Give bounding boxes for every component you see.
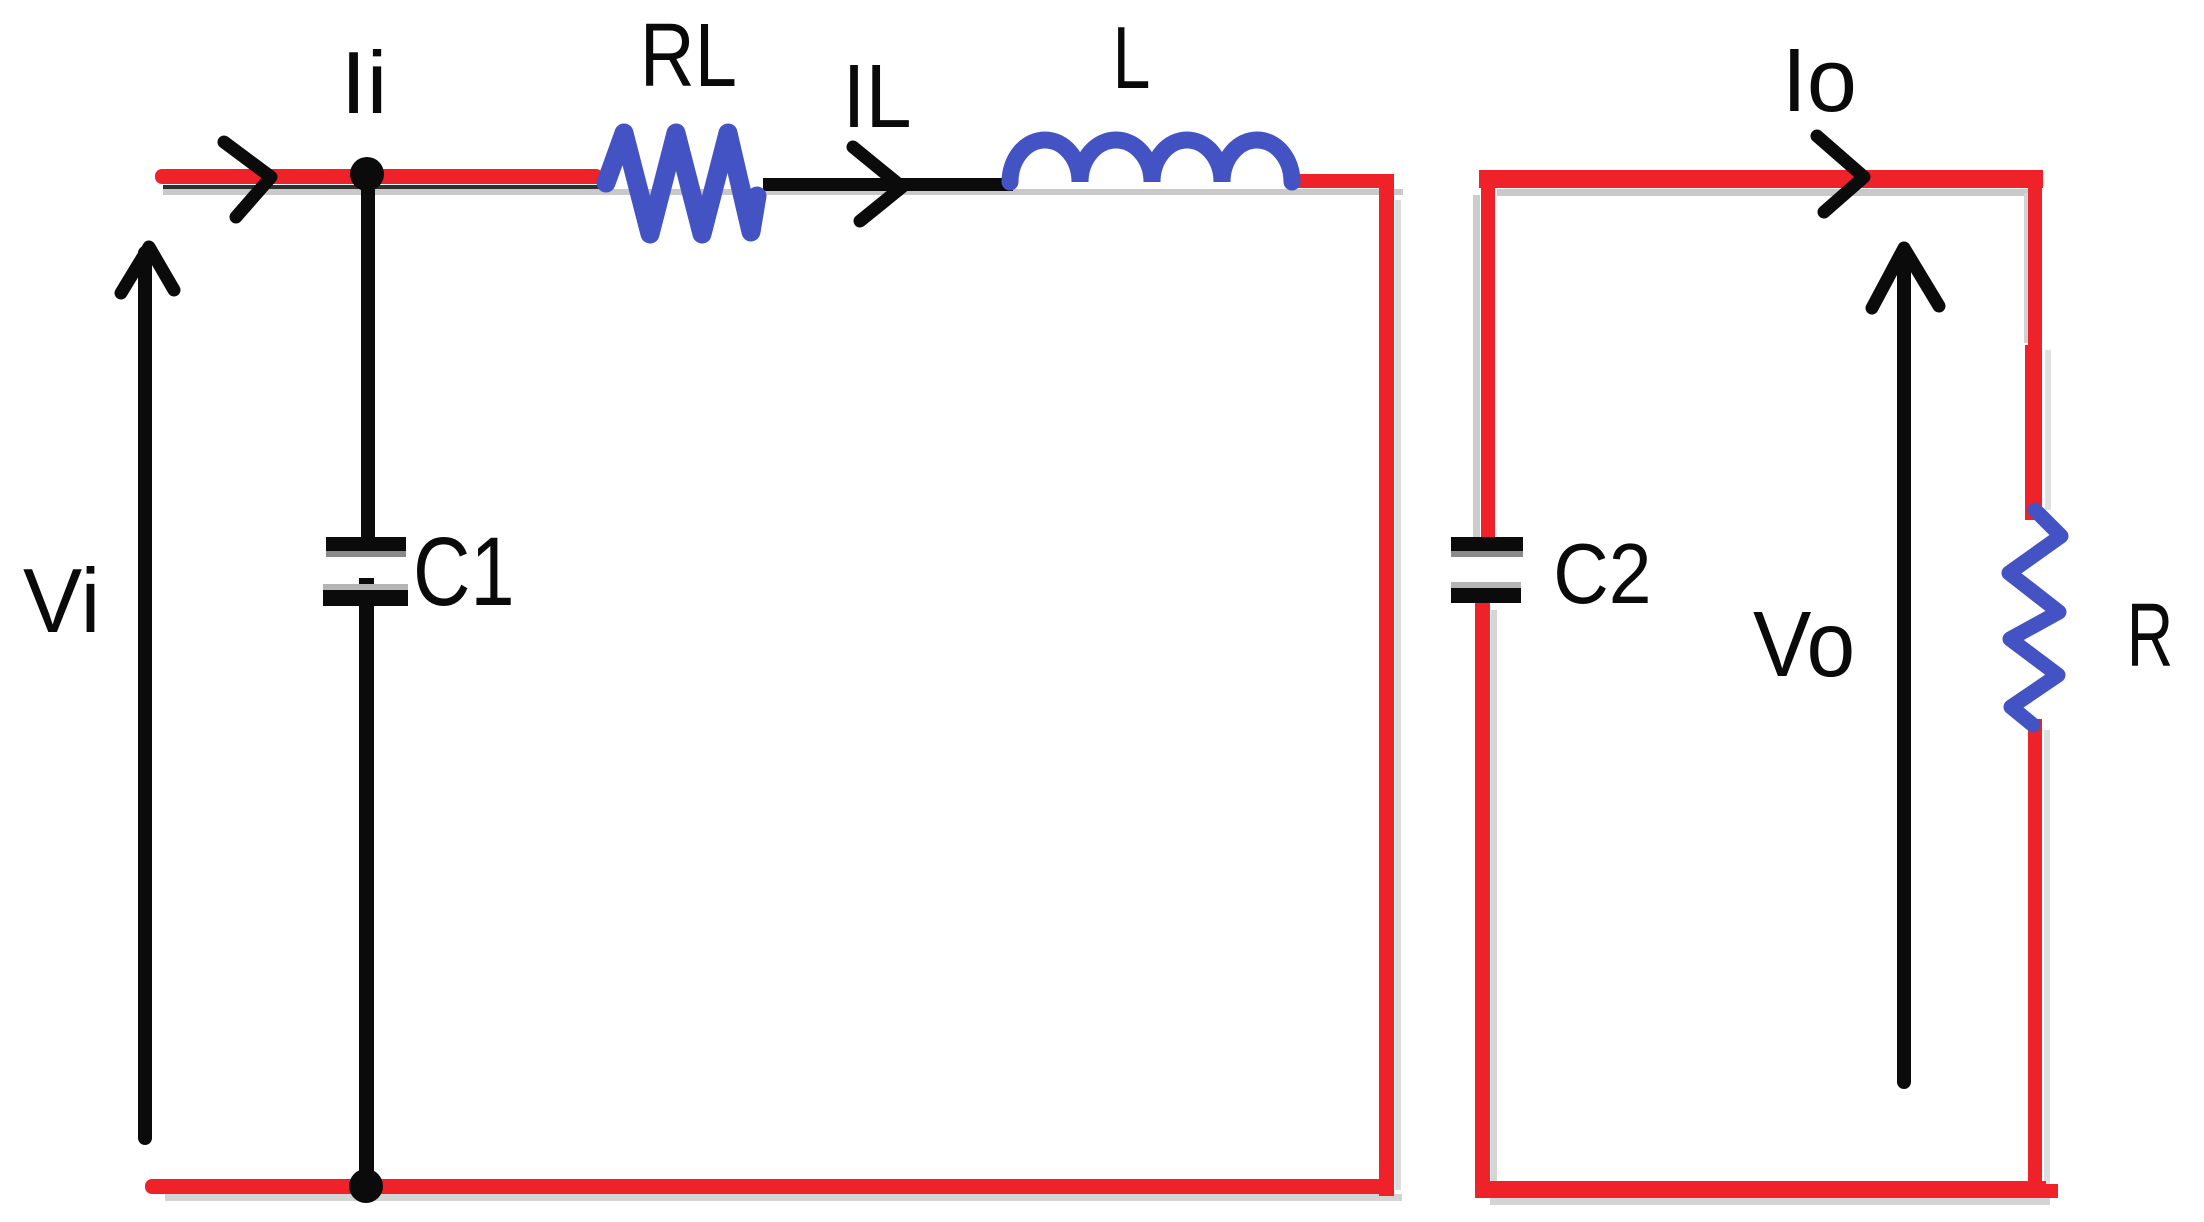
- svg-text:Io: Io: [1782, 31, 1857, 131]
- svg-text:Vo: Vo: [1753, 593, 1855, 697]
- svg-text:Ii: Ii: [341, 34, 388, 133]
- svg-text:IL: IL: [843, 47, 912, 147]
- svg-text:Vi: Vi: [23, 550, 100, 652]
- svg-text:L: L: [1113, 9, 1151, 108]
- svg-text:C2: C2: [1553, 526, 1651, 622]
- svg-text:RL: RL: [640, 5, 737, 105]
- svg-text:R: R: [2127, 584, 2174, 685]
- svg-text:C1: C1: [413, 517, 515, 625]
